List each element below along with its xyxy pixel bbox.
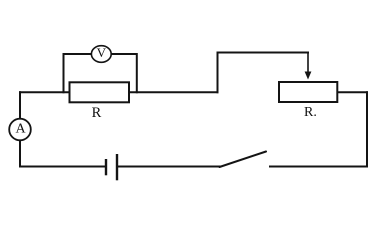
rheostat R1 <box>279 82 337 120</box>
svg-text:V: V <box>97 45 107 60</box>
svg-text:R: R <box>92 105 102 121</box>
wire <box>337 91 367 93</box>
wire <box>117 166 220 168</box>
wire <box>64 54 92 92</box>
wire <box>129 91 218 93</box>
wire <box>307 53 309 74</box>
wire <box>270 166 367 168</box>
wire <box>366 92 368 166</box>
voltmeter V <box>91 45 111 63</box>
resistor R <box>70 82 130 121</box>
svg-text:A: A <box>16 121 27 136</box>
wire <box>20 166 106 168</box>
svg-text:R.: R. <box>304 105 317 120</box>
wire <box>19 92 21 166</box>
wire <box>111 54 137 92</box>
ammeter A <box>9 119 31 141</box>
switch S <box>220 152 267 168</box>
battery B <box>106 154 117 180</box>
wire <box>218 53 309 93</box>
rheostat slider arrowhead <box>305 72 312 80</box>
wire <box>20 91 70 93</box>
